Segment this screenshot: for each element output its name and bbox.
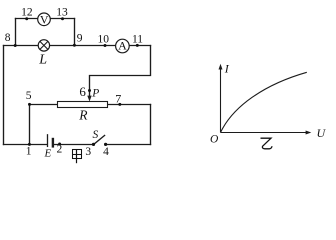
svg-text:P: P <box>91 87 99 99</box>
svg-text:4: 4 <box>103 146 109 158</box>
svg-text:6: 6 <box>79 84 86 99</box>
svg-text:9: 9 <box>77 33 83 45</box>
svg-text:A: A <box>118 39 127 53</box>
svg-text:13: 13 <box>56 7 68 19</box>
svg-text:E: E <box>44 148 52 160</box>
svg-text:3: 3 <box>85 146 91 158</box>
svg-text:I: I <box>224 61 230 75</box>
svg-text:L: L <box>38 53 47 68</box>
svg-text:O: O <box>210 133 219 145</box>
svg-text:5: 5 <box>26 90 32 102</box>
svg-text:U: U <box>316 126 326 140</box>
svg-text:12: 12 <box>21 7 33 19</box>
svg-text:R: R <box>78 108 88 123</box>
svg-text:7: 7 <box>115 91 121 105</box>
svg-text:V: V <box>40 12 49 26</box>
svg-text:10: 10 <box>98 33 110 45</box>
svg-text:8: 8 <box>5 32 11 44</box>
svg-text:11: 11 <box>132 33 143 45</box>
svg-text:1: 1 <box>26 146 32 158</box>
svg-text:S: S <box>93 129 99 141</box>
svg-text:2: 2 <box>57 143 63 155</box>
